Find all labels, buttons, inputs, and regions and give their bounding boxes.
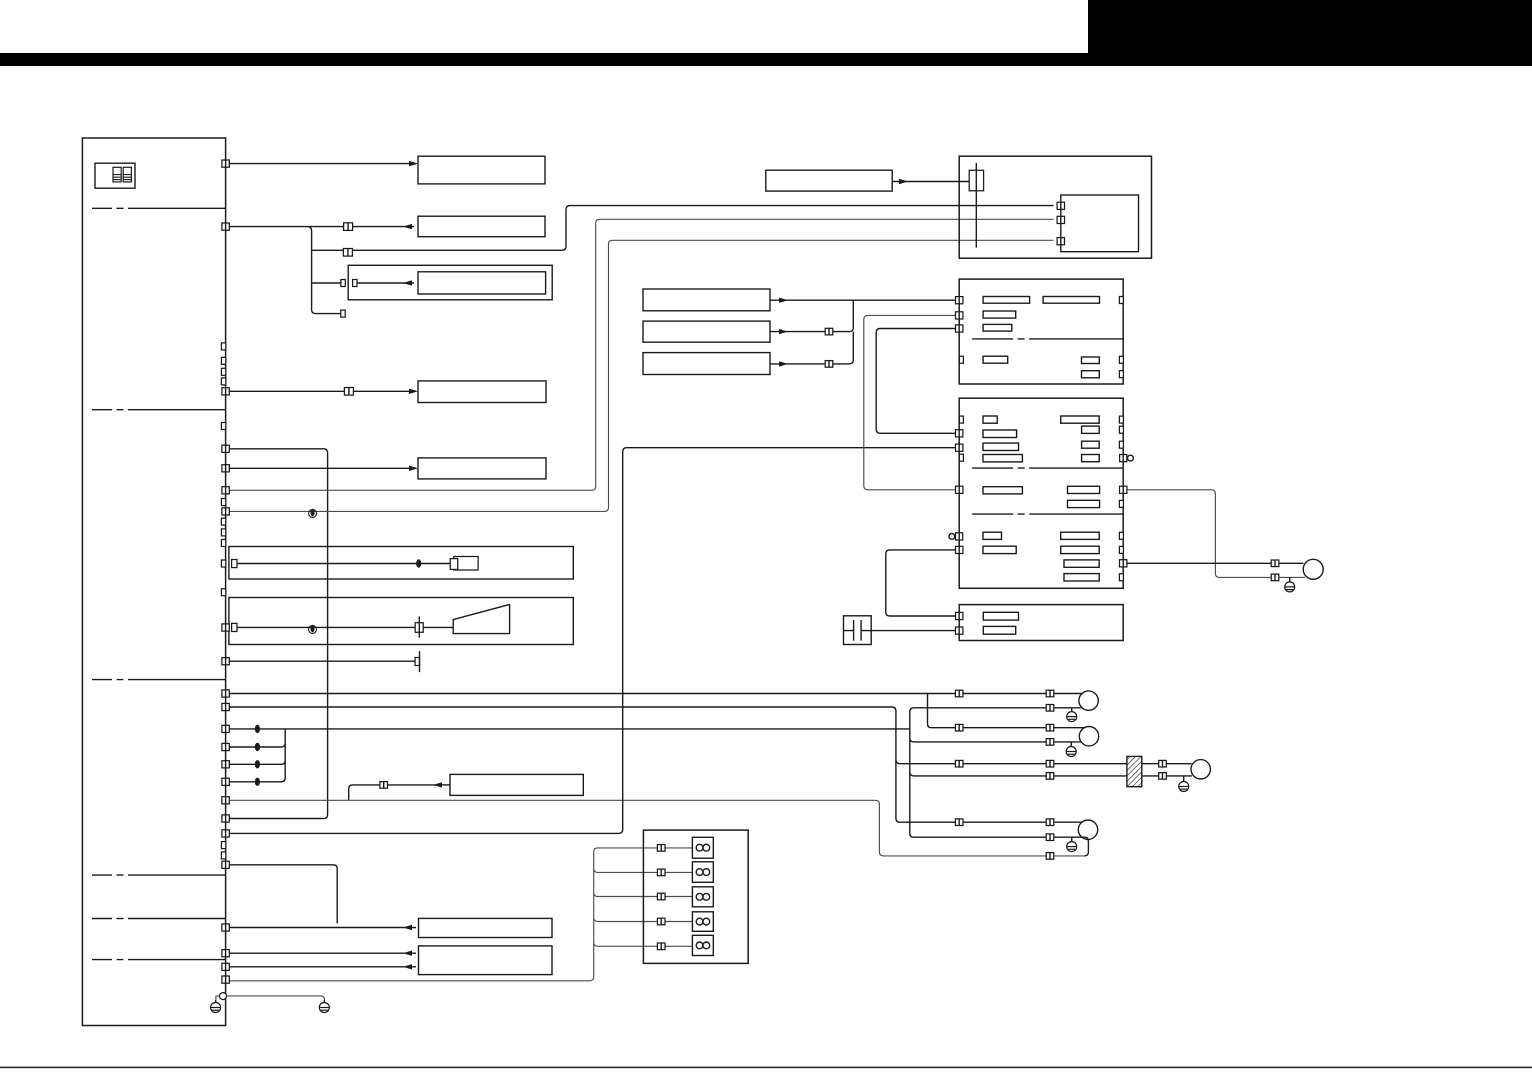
junction block connector pin A2 — [222, 223, 229, 230]
lamp3 bulb — [1191, 760, 1210, 779]
junction block connector pin E3 — [222, 725, 229, 732]
junction block spare terminal s5 — [221, 423, 225, 430]
junction block connector pin G4 — [222, 976, 229, 983]
U3 right stub c — [1119, 441, 1123, 448]
U3 label rect b3 — [1082, 441, 1100, 448]
inline connector J18 — [1046, 834, 1054, 841]
ground G-lamp4 — [1067, 839, 1077, 852]
section divider 3 — [92, 679, 226, 681]
U3 label rect d2 — [983, 546, 1016, 553]
U1 module connector p2 — [1057, 216, 1064, 223]
relay feed half-connector — [341, 280, 345, 287]
fuse through-line — [975, 163, 977, 248]
panel lamp box 2 — [692, 862, 713, 883]
L1 motor plug rect — [454, 557, 478, 571]
junction block spare terminal s4 — [221, 378, 225, 385]
U2 label rect 4 — [983, 324, 1012, 331]
U4 connector p2 — [956, 627, 963, 634]
junction block connector pin D1 — [222, 624, 229, 631]
junction block spare terminal s11 — [221, 589, 225, 596]
lamp4 ground stem — [1071, 837, 1073, 841]
lamp5 ground stem — [1289, 577, 1291, 581]
antenna end connector — [415, 658, 419, 666]
U3 label rect c2 — [1068, 486, 1100, 493]
U1 inner module box — [1061, 195, 1139, 252]
U3 connector L3 — [956, 486, 963, 493]
panel lamp box 4 — [692, 912, 713, 932]
wire: pin694 to lamp1 row — [230, 693, 1083, 695]
ground G-lamp1 — [1067, 709, 1077, 722]
lamp4 bulb — [1078, 820, 1097, 839]
box4 — [418, 458, 546, 479]
wire TM to fuse — [892, 181, 969, 183]
U1 module connector p1 — [1057, 202, 1064, 209]
junction block spare terminal s7 — [221, 518, 225, 525]
arrow into relay box (left-pointing) — [403, 280, 412, 285]
U3 label rect c3 — [1068, 500, 1100, 507]
wire U3 pin549 to U4 pin616 — [886, 550, 956, 616]
U2 connector p1 — [956, 297, 963, 304]
condenser box — [844, 616, 872, 645]
panel lamp 1 filaments — [696, 844, 710, 851]
junction block connector pin C3 — [222, 487, 229, 494]
U2 label rect 2 — [1043, 297, 1099, 304]
junction block connector pin E1 — [222, 690, 229, 697]
grey rail pin800 to lamp4 bottom row — [230, 800, 1085, 856]
junction block connector pin E5 — [222, 761, 229, 768]
wire: pin865 down-feed to B1 — [230, 865, 338, 924]
branch stub connector — [341, 310, 345, 317]
junction block spare terminal s6 — [221, 499, 225, 506]
U2 divider (dash-dot) — [972, 338, 1123, 340]
junction block spare terminal s3 — [221, 368, 225, 375]
wire U3 pin490 to lamp5 (grey) — [1127, 490, 1305, 578]
wire: pin728 to ground bus — [230, 728, 910, 730]
inline connector J4 — [825, 328, 833, 335]
inline connector J11 — [1046, 690, 1054, 697]
ground G-lamp5 — [1285, 579, 1295, 592]
box3 — [418, 381, 546, 403]
branch wire y283 to relay box — [312, 282, 341, 284]
U3 connector R2 — [1120, 486, 1127, 493]
unit U1 box — [959, 156, 1151, 258]
inline connector J16 — [1046, 773, 1054, 780]
box T1 — [418, 156, 545, 184]
junction block connector pin C1 — [222, 445, 229, 452]
junction block spare terminal s2 — [221, 357, 225, 364]
U4 connector p1 — [956, 612, 963, 619]
junction block connector pin A1 — [222, 160, 229, 167]
wire: pin163 to box T1 — [230, 163, 417, 165]
wire: pin747 bus — [230, 729, 286, 782]
inline connector J12 — [1046, 705, 1054, 712]
inline connector J26 — [657, 893, 665, 900]
wire: pin490 up-feed to U1 inner pin (grey) — [230, 219, 1054, 490]
junction block spare terminal s9 — [221, 540, 225, 547]
inline connector J23 — [1271, 574, 1279, 581]
branch vertical at x311.6 — [308, 227, 342, 314]
inline connector J1 — [344, 223, 353, 231]
long box L1 — [229, 547, 573, 580]
L2 inner wire — [237, 626, 453, 628]
U3 pigtail connector L4 — [949, 533, 963, 540]
inline connector J25 — [657, 869, 665, 876]
panel lamp 3 filaments — [696, 893, 710, 900]
fuse-block icon outer box — [95, 163, 135, 188]
ground G-lamp3 — [1179, 779, 1189, 792]
section divider 5 — [92, 918, 226, 920]
U3 connector R3 — [1120, 560, 1127, 567]
wire: pin927 to box B1 — [230, 927, 417, 929]
wire U2 pin315 down to U3 pin489 (grey) — [864, 315, 956, 489]
grey wire pin979 to lamp panel bus — [230, 848, 693, 981]
U3 right stub d — [1119, 500, 1123, 507]
junction block connector pin C2 — [222, 465, 229, 472]
junction block connector pin G2 — [222, 950, 229, 957]
splice bead 782 — [255, 778, 260, 786]
junction block connector pin E6 — [222, 778, 229, 785]
relay inner half-connector — [353, 280, 357, 287]
U3 right stub e — [1119, 532, 1123, 539]
inline connector J20 — [1159, 760, 1167, 767]
U2 right stub c — [1119, 356, 1123, 363]
inline connector J5 — [825, 361, 833, 368]
box M1 — [643, 289, 770, 311]
long box L2 — [229, 598, 573, 645]
U3 label rect a4 — [983, 455, 1022, 462]
panel lamp box 5 — [692, 935, 713, 955]
L1 inner wire — [237, 563, 450, 565]
lamp1 bulb — [1079, 691, 1098, 710]
junction block connector pin C4 — [222, 508, 229, 515]
L1 inner left connector — [232, 560, 237, 568]
junction block connector pin F1 — [222, 861, 229, 868]
lamp2 ground stem — [1070, 742, 1072, 747]
inline connector J27 — [657, 918, 665, 925]
box M2 — [643, 321, 770, 342]
U3 left stub b — [959, 454, 963, 461]
arrow into T1 — [409, 161, 418, 166]
junction block connector pin G3 — [222, 963, 229, 970]
audio box with left arrow — [450, 774, 583, 795]
junction block connector pin E7 — [222, 797, 229, 804]
box B2 — [419, 946, 553, 975]
wire: pin833 up-feed to U3 pin448 — [230, 448, 956, 834]
U3 label rect e4 — [1064, 574, 1099, 581]
section divider 4 — [92, 874, 226, 876]
L2 speaker horn — [453, 605, 509, 634]
fuse icon cell 1 — [113, 167, 121, 182]
box T2 — [418, 216, 545, 237]
U3 connector L5 — [956, 546, 963, 553]
fuse icon cell 2 — [123, 167, 131, 182]
ground G1 — [211, 1000, 221, 1013]
wire: pin468 to box4 — [230, 467, 417, 469]
arrow out of audio box — [433, 782, 442, 787]
arrow on B2 wire2 — [403, 964, 412, 969]
U3 divider 1 — [972, 467, 1123, 469]
arrow into box4 — [409, 466, 418, 471]
wire U2 pin328 down to U3 pin433 — [876, 329, 955, 434]
junction block connector pin B1 — [222, 388, 229, 395]
relay inner box — [418, 272, 546, 294]
lamp panel box — [643, 830, 748, 963]
U3 left stub a — [959, 416, 963, 423]
junction block connector pin E2 — [222, 703, 229, 710]
section divider 6 — [92, 959, 226, 961]
wire: inner conn to relay inner box — [356, 282, 414, 284]
U3 label rect d1 — [983, 532, 1002, 539]
U3 label rect a2 — [983, 430, 1017, 438]
wire U3 pin563 to lamp5 — [1127, 562, 1304, 564]
lamp2 bulb — [1079, 727, 1098, 746]
junction block spare terminal s10 — [221, 560, 225, 567]
U2 right stub d — [1119, 371, 1123, 378]
U3 label rect b2 — [1082, 426, 1100, 433]
splice bead 747 — [255, 743, 260, 751]
inline connector J13 — [1046, 724, 1054, 731]
inline connector J10 — [955, 819, 963, 826]
inline connector J2 — [343, 249, 352, 257]
wire: earth circle to ground G1 — [216, 996, 220, 1002]
wire M1 to U2 pin — [770, 299, 955, 301]
wire M3 join — [770, 332, 853, 364]
junction block (left tall box) — [82, 138, 225, 1026]
U3 connector L2 — [956, 444, 963, 451]
L2 splice drop — [309, 625, 317, 634]
U3 label rect a1 — [983, 416, 997, 423]
U1 module connector p3 — [1057, 238, 1064, 245]
arrow into box3 — [409, 389, 418, 394]
U2 left stub b — [959, 356, 963, 363]
junction block spare terminal s8 — [221, 529, 225, 536]
splice drop on pin511 wire — [309, 509, 317, 518]
header right black block — [1088, 0, 1532, 66]
U2 right stub a — [1119, 297, 1123, 304]
U3 label rect c1 — [983, 487, 1022, 494]
condenser plates and wire — [844, 620, 956, 641]
wire: pin953 to box B2 — [230, 952, 417, 954]
U2 connector p2 — [956, 312, 963, 319]
panel lamp 5 filaments — [696, 942, 710, 949]
splice bead 764 — [255, 760, 260, 768]
U2 label rect 1 — [983, 297, 1030, 304]
inline connector J28 — [657, 943, 665, 950]
inline connector J3 — [344, 388, 353, 396]
arrow M2 — [779, 329, 788, 334]
U3 right stub a — [1119, 416, 1123, 423]
inline connector J7 — [955, 690, 963, 697]
junction block connector pin D2 — [222, 658, 229, 665]
arrow M3 — [779, 361, 788, 366]
U3 right stub g — [1119, 574, 1123, 581]
U3 label rect b4 — [1082, 455, 1100, 462]
inline connector J17 — [1046, 819, 1054, 826]
branch wire y250 long run to U1 pin — [312, 206, 1054, 251]
body earth circle at block exit — [220, 993, 227, 1000]
unit U3 box — [959, 398, 1123, 588]
U2 connector p3 — [956, 325, 963, 332]
wire: pin448 down-feed to pin819 — [230, 449, 328, 819]
ground G2 — [319, 1000, 329, 1013]
relay outer box — [348, 265, 552, 300]
arrow on B2 wire1 — [403, 951, 412, 956]
junction block connector pin E8 — [222, 815, 229, 822]
inline connector J14 — [1046, 739, 1054, 746]
lamp5 bulb — [1303, 559, 1323, 579]
wire: pin661 antenna stub — [230, 660, 416, 662]
inline connector J22 — [1271, 560, 1279, 567]
U3 connector L1 — [956, 430, 963, 437]
wire: earth circle to ground G2 (grey) — [227, 996, 325, 1003]
L2 mid connector with post — [415, 623, 423, 633]
U3 right stub f — [1119, 546, 1123, 553]
panel lamp 4 filaments — [696, 918, 710, 925]
panel lamp box 3 — [692, 887, 713, 907]
tap to lamp3 row — [896, 760, 1192, 764]
L2 inner left connector — [232, 623, 237, 631]
junction block spare terminal s1 — [221, 343, 225, 350]
wire: pin391 to box3 — [230, 390, 417, 392]
unit U2 box — [959, 279, 1123, 384]
junction block spare terminal s12 — [221, 842, 225, 849]
inline connector J8 — [955, 724, 963, 731]
U3 divider 2 — [972, 513, 1123, 515]
wire: pin966 to box B2 — [230, 966, 417, 968]
L1 splice bead — [416, 559, 421, 567]
U2 label rect 7 — [1082, 371, 1100, 378]
wire: pin511 up-feed to U1 inner pin (grey) — [230, 240, 1054, 511]
panel lamp 2 filaments — [696, 869, 710, 876]
U4 label rect 1 — [983, 612, 1018, 620]
U4 label rect 2 — [983, 626, 1015, 634]
arrow M1 — [779, 298, 788, 303]
arrow on B1 wire (left-pointing) — [403, 925, 412, 930]
U3 label rect a3 — [983, 443, 1019, 450]
box M3 — [643, 353, 770, 375]
tee down from y693 to lamp2 row — [928, 694, 1085, 728]
unit U4 box — [959, 605, 1123, 641]
junction block spare terminal s13 — [221, 852, 225, 859]
inline connector J21 — [1159, 773, 1167, 780]
wire: audio box tap to grey rail — [349, 785, 436, 800]
arrow into T2 (left-pointing) — [403, 224, 412, 229]
U3 label rect e3 — [1064, 560, 1099, 567]
inline connector J19 — [1046, 853, 1054, 860]
fuse element in U1 — [969, 170, 983, 191]
wire M2 join — [770, 300, 853, 331]
box TM (top middle) — [766, 170, 892, 191]
junction block connector pin E9 — [222, 830, 229, 837]
inline connector J6 — [380, 782, 388, 789]
resistor hatched block — [1127, 756, 1142, 786]
bottom rule — [0, 1067, 1532, 1069]
L1 plug connector — [450, 559, 458, 570]
U2 label rect 6 — [1082, 357, 1100, 364]
U2 label rect 5 — [983, 356, 1008, 363]
lamp3 ground stem — [1183, 776, 1185, 782]
wire: pin706 feed — [230, 707, 1083, 822]
section divider 2 — [92, 409, 226, 411]
box B1 — [419, 918, 553, 937]
inline connector J24 — [657, 845, 665, 852]
junction block connector pin E4 — [222, 743, 229, 750]
ground G-lamp2 — [1066, 744, 1076, 757]
panel lamp box 1 — [692, 837, 713, 858]
U3 label rect e1 — [1061, 532, 1100, 539]
U3 pigtail connector R1 — [1120, 455, 1134, 462]
U3 right stub b — [1119, 426, 1123, 433]
page header black banner — [0, 53, 1532, 66]
U3 label rect e2 — [1061, 546, 1100, 553]
inline connector J9 — [955, 760, 963, 767]
lamp4 bottom bracket — [1084, 837, 1088, 856]
lamp1 ground stem — [1071, 708, 1073, 712]
junction block connector pin G1 — [222, 924, 229, 931]
wire: pin226 trunk to box T2 — [230, 226, 415, 228]
section divider 1 (dash-dot) — [92, 207, 226, 209]
ground bus vertical — [910, 708, 1192, 837]
inline connector J15 — [1046, 760, 1054, 767]
U3 label rect b1 — [1061, 416, 1100, 423]
arrow TM — [899, 179, 908, 184]
wire: pin728 splice bead — [255, 725, 260, 733]
U2 label rect 3 — [983, 311, 1016, 318]
